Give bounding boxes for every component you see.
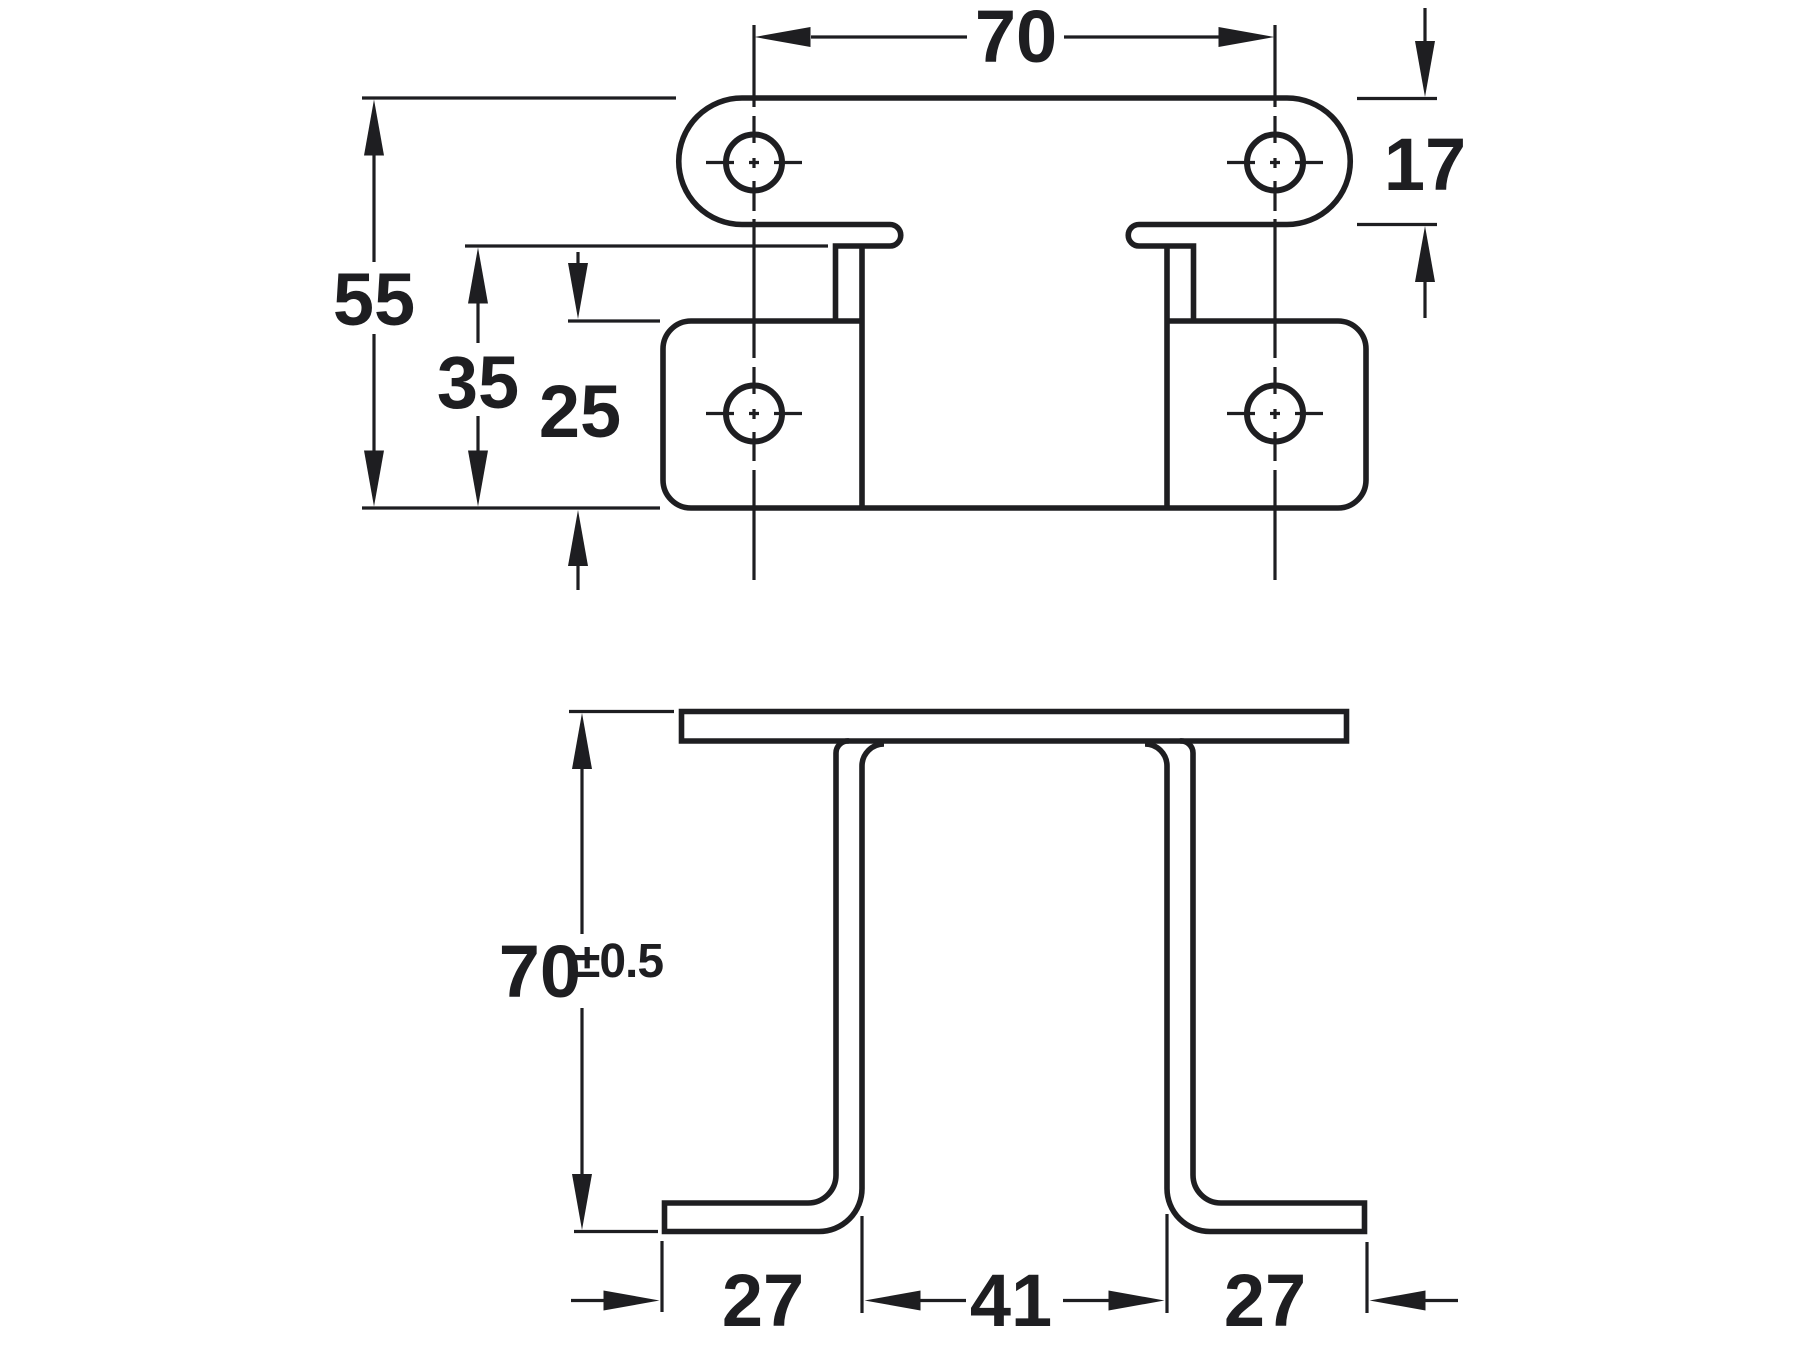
dimension 70 top: arrows (755, 27, 811, 47)
svg-text:27: 27 (1224, 1259, 1306, 1342)
right mounting plate (1167, 321, 1366, 508)
dimension 35: extension line (465, 244, 828, 247)
svg-text:55: 55 (333, 258, 415, 341)
svg-text:±0.5: ±0.5 (574, 935, 663, 988)
vertical centerline right holes (1273, 25, 1276, 580)
dimension 35: line and arrows (468, 248, 488, 304)
svg-text:35: 35 (437, 341, 519, 424)
dimension 55: line and arrows (364, 100, 384, 156)
horizontal centerline bottom-left hole (706, 412, 802, 415)
svg-text:27: 27 (722, 1259, 804, 1342)
dimension 41: right arrow (1063, 1299, 1109, 1302)
dimension 17: lower arrow (1415, 226, 1435, 282)
dimension 17: extension lines (1357, 97, 1437, 100)
horizontal centerline top-left hole (706, 161, 802, 164)
hole bottom-left (726, 386, 782, 442)
hole bottom-right (1247, 386, 1303, 442)
dimension 41: left arrow (865, 1291, 921, 1311)
dimension 55: extension lines (362, 96, 676, 99)
dimension 25: lower arrow (568, 510, 588, 566)
horizontal centerline bottom-right hole (1227, 412, 1323, 415)
svg-text:41: 41 (970, 1259, 1052, 1342)
dimension 70 top: line (811, 35, 967, 38)
svg-text:17: 17 (1384, 123, 1466, 206)
dimension 25: extension line (568, 319, 660, 322)
bottom row extension lines (660, 1241, 663, 1312)
vertical centerline left holes (752, 25, 755, 580)
top flange plate (stadium outline) (679, 98, 1350, 225)
left web fold edge (859, 246, 865, 508)
right hook lip (1128, 225, 1193, 322)
web bottom edge (862, 505, 1167, 511)
dimension 70±0.5: extension lines (569, 710, 674, 713)
right leg and right foot (sheet section) (1145, 741, 1365, 1232)
dimension 70±0.5: line and arrows (572, 713, 592, 769)
left leg and left foot (sheet section) (665, 741, 885, 1232)
dimension 27 right: outside arrow (1370, 1291, 1426, 1311)
svg-text:70: 70 (499, 930, 581, 1013)
right web fold edge (1164, 246, 1170, 508)
profile top bar (682, 712, 1347, 742)
left hook lip (836, 225, 901, 322)
svg-text:70: 70 (975, 0, 1057, 78)
left mounting plate (663, 321, 862, 508)
svg-text:25: 25 (539, 370, 621, 453)
horizontal centerline top-right hole (1227, 161, 1323, 164)
hole top-right (1247, 135, 1303, 191)
dimension 25: upper arrow (576, 252, 579, 266)
dimension 27 left: outside arrow (571, 1299, 606, 1302)
hole top-left (726, 135, 782, 191)
dimension 17: upper arrow (1423, 8, 1426, 42)
